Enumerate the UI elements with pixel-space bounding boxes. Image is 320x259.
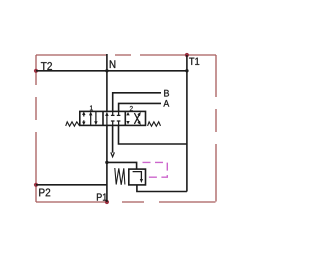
valve position 2 (right box) blocked arrows and crossed arrows: [126, 112, 141, 125]
spring right of valve: [148, 122, 161, 126]
wire P2 branch: [36, 184, 107, 186]
node junction T1/tank: [185, 69, 188, 72]
wire N riser: [106, 54, 108, 111]
relief valve spring: [115, 168, 125, 185]
wire relief outlet to tank: [137, 185, 187, 192]
wire T-return from valve to tank: [119, 125, 187, 144]
valve V1 body (3-position spool): [80, 111, 146, 125]
port dot P2: [34, 183, 38, 187]
port dot P1: [105, 200, 109, 204]
valve neutral box open centre arrow: [105, 111, 120, 125]
label T2: [41, 62, 52, 70]
crossed arrows X: [134, 114, 139, 124]
pilot line (magenta dashed): [139, 162, 168, 177]
label 1: [90, 105, 93, 110]
valve position 1 (left box) broken arrow: [82, 111, 98, 125]
port dot T2: [34, 69, 38, 73]
wire P1 riser: [106, 125, 108, 202]
wire port A: [119, 103, 161, 111]
spring left of valve: [66, 122, 80, 126]
check valve open arrowhead on P line: [111, 152, 115, 156]
valve neutral blocked port stubs: [112, 111, 114, 115]
relief valve internal arrow: [133, 172, 142, 180]
label 2: [130, 106, 133, 111]
label A: [163, 100, 169, 107]
node junction P1/relief: [105, 161, 108, 164]
label B: [164, 90, 169, 97]
node junction N/tank: [105, 69, 108, 72]
label P1: [97, 194, 107, 201]
relief valve RV body: [129, 169, 146, 185]
wire check valve stub: [112, 125, 114, 152]
label N: [110, 60, 115, 68]
label T1: [189, 58, 199, 65]
wire tank gallery T2-T1: [36, 70, 187, 72]
wire relief feed: [107, 162, 137, 169]
valve position 1 straight arrow down: [95, 111, 97, 123]
port dot T1: [185, 53, 189, 57]
wire port B: [113, 93, 161, 112]
valve position 1 straight arrow up: [90, 114, 92, 126]
wire T1 drop: [186, 55, 188, 192]
dashed red enclosure border: [36, 55, 216, 202]
label P2: [39, 188, 50, 196]
